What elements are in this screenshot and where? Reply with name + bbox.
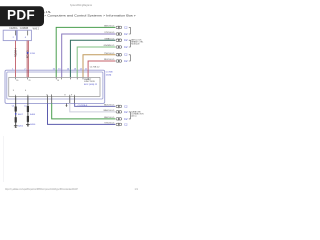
svg-text:S407: S407 [18,114,24,116]
connector terminal bottom row 1 [116,104,128,108]
connector C2 box (top-right) [17,30,31,40]
svg-text:C4: C4 [24,106,26,108]
svg-text:C2: C2 [124,32,128,36]
connector terminal row 4 [116,45,128,49]
svg-text:W-B 2: W-B 2 [33,29,40,31]
bracket joining rows 3-4 [129,40,131,47]
svg-text:C2: C2 [124,110,128,114]
svg-text:(SJB): (SJB) [106,74,112,76]
pin labels above module top edge [12,69,88,71]
connector terminal row 5 [116,53,128,57]
wire VT/OG (bottom row 4) [48,96,116,124]
svg-text:C2: C2 [124,59,128,63]
connector terminal row 2 [116,32,128,36]
svg-text:C175B 22: C175B 22 [90,66,101,68]
connector terminal row 6 [116,59,128,63]
svg-text:C2: C2 [124,122,128,126]
bracket joining rows 5-6 [129,55,131,61]
svg-text:VT/OG 0.5: VT/OG 0.5 [104,32,115,34]
connector labels at ground wire tops [12,106,27,108]
svg-text:MODULE: MODULE [131,44,140,46]
faint page fold line [3,136,5,182]
wire RD/OG (red, row 6) [88,59,115,77]
svg-text:C175B: C175B [106,72,113,74]
svg-text:16: 16 [57,80,59,82]
svg-text:RD/WH: RD/WH [14,48,17,57]
svg-text:C2: C2 [124,45,128,49]
svg-text:S406: S406 [30,114,36,116]
module U1 inner connector block [9,77,100,96]
svg-text:C2: C2 [124,104,128,108]
svg-text:BU/OG 0.5: BU/OG 0.5 [104,105,115,107]
wire WH/OG (bottom row 2) [70,96,115,112]
module U1 name text [84,78,98,86]
node label: DLC bottom rows [131,111,144,118]
svg-text:G200: G200 [30,124,36,126]
svg-text:(DLC): (DLC) [131,116,136,118]
connector C1 box (top-left) [3,30,16,40]
svg-text:1/1: 1/1 [135,188,139,191]
svg-text:PDF: PDF [7,8,35,23]
wire BK (right ground wire chain) [26,96,36,126]
svg-text:S110: S110 [30,53,36,55]
wire stubs crossing into inner connector [16,70,89,78]
wire BU/OG (bottom row 1) [75,96,116,106]
svg-text:C2280B: C2280B [20,28,29,30]
wire RD (right red vertical) [27,41,30,78]
bracket joining bottom rows 2-3 [129,112,131,119]
svg-text:G201: G201 [18,126,24,128]
svg-text:GN/BU 0.5: GN/BU 0.5 [104,38,115,40]
pin ticks on inner top edge [16,78,89,82]
stub pin below module with arrow [66,103,68,105]
wire VT/OG (violet, row 2) [62,32,115,77]
node label: ABS module rows 3-4 [131,39,143,46]
connector terminal bottom row 2 [116,110,128,114]
svg-text:C2: C2 [124,38,128,42]
connector terminal bottom row 4 [116,122,128,126]
svg-text:SystemWiringDiagrams: SystemWiringDiagrams [70,3,92,7]
svg-text:C2280A: C2280A [9,27,18,30]
connector terminal row 1 [116,25,128,29]
svg-text:BOX (SJB) 22: BOX (SJB) 22 [84,84,98,86]
svg-text:GN/OG 0.5: GN/OG 0.5 [104,26,115,28]
module U1 outer box (smart junction box) [5,70,105,103]
PDF badge [0,6,44,26]
module U1 connector label (right of box) [106,72,113,77]
wire GN/OG (top green, row 1) [56,26,115,78]
wire GN/WH (light green, row 4) [77,45,115,77]
ground G200 [26,123,30,125]
bracket joining rows 1-2 [129,27,131,34]
module U1 inner border line [7,72,103,99]
svg-text:WH/OG 0.5: WH/OG 0.5 [104,110,116,112]
svg-text:C2: C2 [124,25,128,29]
svg-text:GN/WH 0.5: GN/WH 0.5 [104,45,115,47]
svg-text:JUNCTION: JUNCTION [84,81,95,83]
svg-text:C2: C2 [124,117,128,121]
pin labels at inner bottom [13,90,73,97]
splice S110 on RD wire [27,52,36,55]
svg-text:TN/OG 0.5: TN/OG 0.5 [104,53,115,55]
svg-text:C4: C4 [12,106,14,108]
connector terminal row 3 [116,38,128,42]
wire BK (left ground wire chain) [14,96,24,127]
pin ticks on inner bottom edge [16,95,75,97]
wire TN/OG (tan, row 5) [83,53,115,77]
svg-text:VT/OG 0.5: VT/OG 0.5 [104,123,115,125]
connector terminal bottom row 3 [116,117,128,121]
ground G201 [14,125,18,127]
svg-text:GN/OG 0.5: GN/OG 0.5 [104,117,115,119]
svg-text:https://my.alldata.com/repair/: https://my.alldata.com/repair/#/repair/c… [5,188,78,191]
wire RD/WH (left red vertical) [14,41,17,78]
wire GN/OG (bottom row 3) [52,96,115,119]
wire GN/BU (teal, row 3) [70,38,115,77]
svg-text:C2: C2 [124,53,128,57]
svg-text:RD/OG 0.5: RD/OG 0.5 [104,59,115,61]
svg-text:30: 30 [16,80,18,82]
svg-text:29: 29 [29,80,31,82]
